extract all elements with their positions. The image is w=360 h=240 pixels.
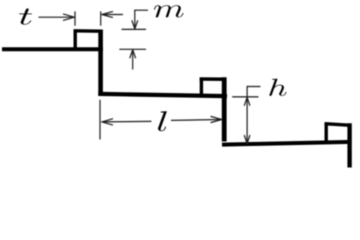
dim m: tick at step level <box>120 48 146 50</box>
dim m: upper arrow shaft <box>134 10 136 28</box>
dim t: right extension tick <box>100 12 102 25</box>
label l <box>158 111 167 131</box>
dim t: right arrow shaft <box>102 14 123 16</box>
dim l: left extension tick <box>99 100 101 139</box>
riser 1 (drop wall) <box>98 30 103 97</box>
dim m: leader from label <box>135 9 148 11</box>
dim m: upper arrowhead (points down) <box>132 21 138 29</box>
dim l: right arrow shaft <box>172 119 222 122</box>
dim m: lower arrow shaft <box>132 50 134 69</box>
dim m: tick at tooth-top level <box>122 28 146 30</box>
label t <box>19 9 32 25</box>
tooth 1 top edge <box>74 29 103 33</box>
dim l: right arrowhead (points right) <box>211 117 222 123</box>
dim t: left arrow shaft <box>39 16 74 18</box>
step 3 top surface <box>222 142 352 145</box>
dim l: left arrow shaft <box>102 120 151 123</box>
tooth 3 top edge <box>325 124 350 126</box>
label h <box>269 79 286 96</box>
dim h: leader from label <box>247 86 260 88</box>
dim t: left extension tick <box>74 12 76 25</box>
dim h: tick at step-2 level <box>233 96 258 98</box>
dim h: upper arrowhead (points up at tick) <box>244 97 249 105</box>
tooth 2 top edge <box>200 77 226 81</box>
dim t: left arrowhead (points right) <box>64 14 75 20</box>
dim m: lower arrowhead (points up) <box>130 50 136 58</box>
dim h: vertical shaft <box>246 87 248 144</box>
label m <box>154 5 184 17</box>
step 2 top surface <box>98 94 227 96</box>
dim l: left arrowhead (points left) <box>102 119 113 125</box>
dim h: lower arrowhead (points down at step 3) <box>244 136 249 144</box>
tooth 3 left edge <box>325 123 328 142</box>
riser 3 (drop wall) <box>347 123 351 167</box>
riser 2 (drop wall) <box>222 77 227 141</box>
step 1 top surface <box>2 47 103 51</box>
dim t: right arrowhead (points left) <box>102 12 113 18</box>
tooth 2 left edge <box>200 78 203 96</box>
tooth 1 left edge <box>73 30 76 50</box>
